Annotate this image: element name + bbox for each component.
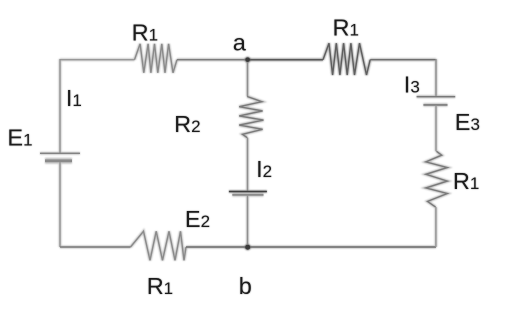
svg-text:E1: E1 [7, 124, 32, 150]
svg-text:R1: R1 [453, 168, 479, 194]
resistor R1 bottom zigzag [131, 231, 187, 260]
svg-text:a: a [233, 29, 247, 55]
svg-text:I1: I1 [66, 85, 82, 111]
svg-text:R2: R2 [174, 111, 200, 137]
resistor R2 middle vertical zigzag [239, 97, 263, 138]
resistor R1 top-right zigzag [323, 43, 370, 75]
wire right vertical lower [435, 207, 437, 247]
wire middle vertical upper (node a down) [247, 60, 249, 97]
wire bottom-right segment (node b to corner) [248, 246, 436, 248]
node b junction dot [245, 245, 250, 250]
resistor R1 top-left zigzag [135, 44, 178, 73]
wire left vertical lower [59, 162, 61, 247]
battery E2(mid) short plate [232, 194, 263, 196]
wire middle vertical lower (battery to node b) [247, 195, 249, 247]
svg-text:R1: R1 [132, 19, 158, 45]
svg-text:I3: I3 [404, 71, 420, 97]
battery E2(mid) long plate [229, 191, 267, 193]
svg-text:E2: E2 [185, 206, 210, 232]
svg-text:b: b [239, 273, 252, 299]
wire top middle-left segment (resistor to node a) [177, 59, 248, 61]
svg-text:I2: I2 [256, 156, 272, 182]
soft halo underlay (decorative) [40, 43, 455, 260]
battery E1 long plate [40, 152, 80, 154]
svg-text:R1: R1 [333, 14, 359, 40]
wire left vertical upper [59, 59, 61, 153]
svg-text:E3: E3 [455, 109, 480, 135]
resistor R1 right vertical zigzag [426, 151, 447, 207]
node a junction dot [245, 57, 250, 62]
battery E3 long plate [417, 96, 456, 98]
battery E3 short plate [423, 104, 447, 106]
wire right vertical upper [435, 59, 437, 97]
svg-text:R1: R1 [147, 273, 173, 299]
wire bottom middle segment (resistor to node b) [186, 246, 248, 248]
wire top-left segment [60, 59, 135, 61]
battery E1 short plate [45, 159, 72, 162]
wire right vertical middle [435, 105, 437, 151]
wire middle vertical between R2 and battery [247, 138, 249, 192]
wire top-right segment [370, 59, 436, 61]
wire top middle-right segment (node a to resistor) [248, 59, 324, 61]
wire bottom-left segment [60, 246, 131, 248]
